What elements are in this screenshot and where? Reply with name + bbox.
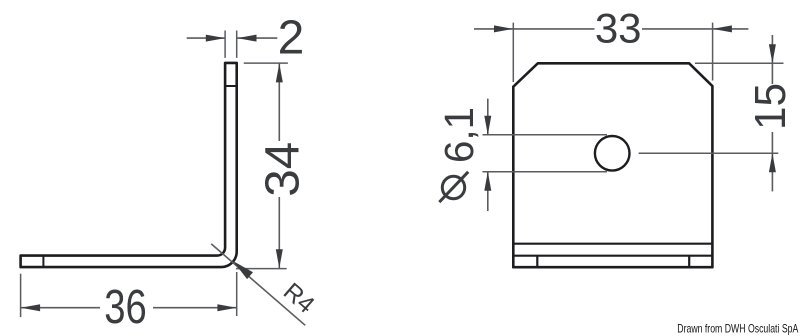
dimension 34: dimension line lower part [278, 197, 280, 268]
dimension 33: right extension line [712, 23, 714, 81]
dimension 36: dimension line left segment [21, 307, 100, 309]
dimension 15: dimension line upper part [771, 35, 773, 84]
right view: plate outline with chamfered top corners [513, 63, 712, 267]
svg-text:34: 34 [256, 142, 309, 197]
dimension 34: top extension line [244, 62, 288, 64]
dimension 15: bottom arrowhead [769, 153, 776, 172]
right view: left tick in bottom strip [536, 256, 538, 268]
dimension diameter 6,1: top extension line [483, 134, 608, 136]
dimension 15: top extension line [695, 62, 784, 64]
svg-text:15: 15 [746, 83, 795, 130]
svg-text:36: 36 [104, 281, 147, 334]
dimension 33: left extension line [512, 23, 514, 82]
dimension 34: bottom extension line [236, 268, 287, 270]
dimension diameter 6,1: dimension line lower part [487, 172, 489, 211]
right view: bend tangent line [513, 243, 712, 245]
dimension 34: dimension line upper part [278, 63, 280, 141]
dimension 36: right arrowhead [217, 304, 236, 311]
dimension 34: top arrowhead [276, 63, 283, 82]
dimension 33: right arrowhead [713, 25, 732, 32]
right view: right tick in bottom strip [688, 256, 690, 268]
svg-text:R4: R4 [278, 278, 319, 319]
dimension diameter 6,1: diameter symbol circle [442, 176, 464, 198]
right view: bottom leg front edge line [513, 255, 712, 257]
dimension 15: dimension line lower part [771, 132, 773, 191]
left view: edge tick in bottom leg [42, 256, 44, 268]
dimension 2: dimension line right tail [237, 37, 278, 39]
dimension 15: top arrowhead [769, 44, 776, 63]
dimension 33: dimension line right segment [642, 28, 748, 30]
dimension 2: dimension line left tail [187, 37, 225, 39]
dimension 33: left arrowhead [494, 25, 513, 32]
left view: edge tick in vertical leg [225, 85, 237, 87]
dimension 15: bottom extension line (hole centerline) [639, 152, 779, 154]
dimension diameter 6,1: bottom arrowhead [484, 172, 491, 191]
left view: L-bracket side profile outline [21, 63, 237, 267]
dimension diameter 6,1: top arrowhead [484, 116, 491, 135]
dimension 33: dimension line left segment [474, 28, 595, 30]
right view: hole circle [595, 136, 630, 171]
dimension R4: arrowhead [233, 261, 253, 279]
dimension 36: right extension line [236, 272, 238, 316]
dimension 36: dimension line right segment [153, 307, 237, 309]
dimension 2: extension lines [224, 31, 226, 58]
svg-text:2: 2 [278, 12, 305, 65]
dimension 2: left arrowhead [206, 35, 225, 42]
dimension diameter 6,1: dimension line upper part [487, 99, 489, 135]
dimension 36: left arrowhead [21, 304, 40, 311]
svg-text:33: 33 [595, 5, 642, 52]
dimension diameter 6,1: diameter symbol slash [439, 172, 468, 202]
dimension diameter 6,1: bottom extension line [483, 171, 608, 173]
dimension 2: right arrowhead [237, 35, 256, 42]
svg-text:Drawn from DWH Osculati SpA: Drawn from DWH Osculati SpA [677, 322, 798, 336]
svg-text:6,1: 6,1 [436, 107, 482, 163]
dimension R4: leader line [211, 244, 305, 325]
dimension 34: bottom arrowhead [276, 249, 283, 268]
dimension 36: left extension line [20, 274, 22, 317]
